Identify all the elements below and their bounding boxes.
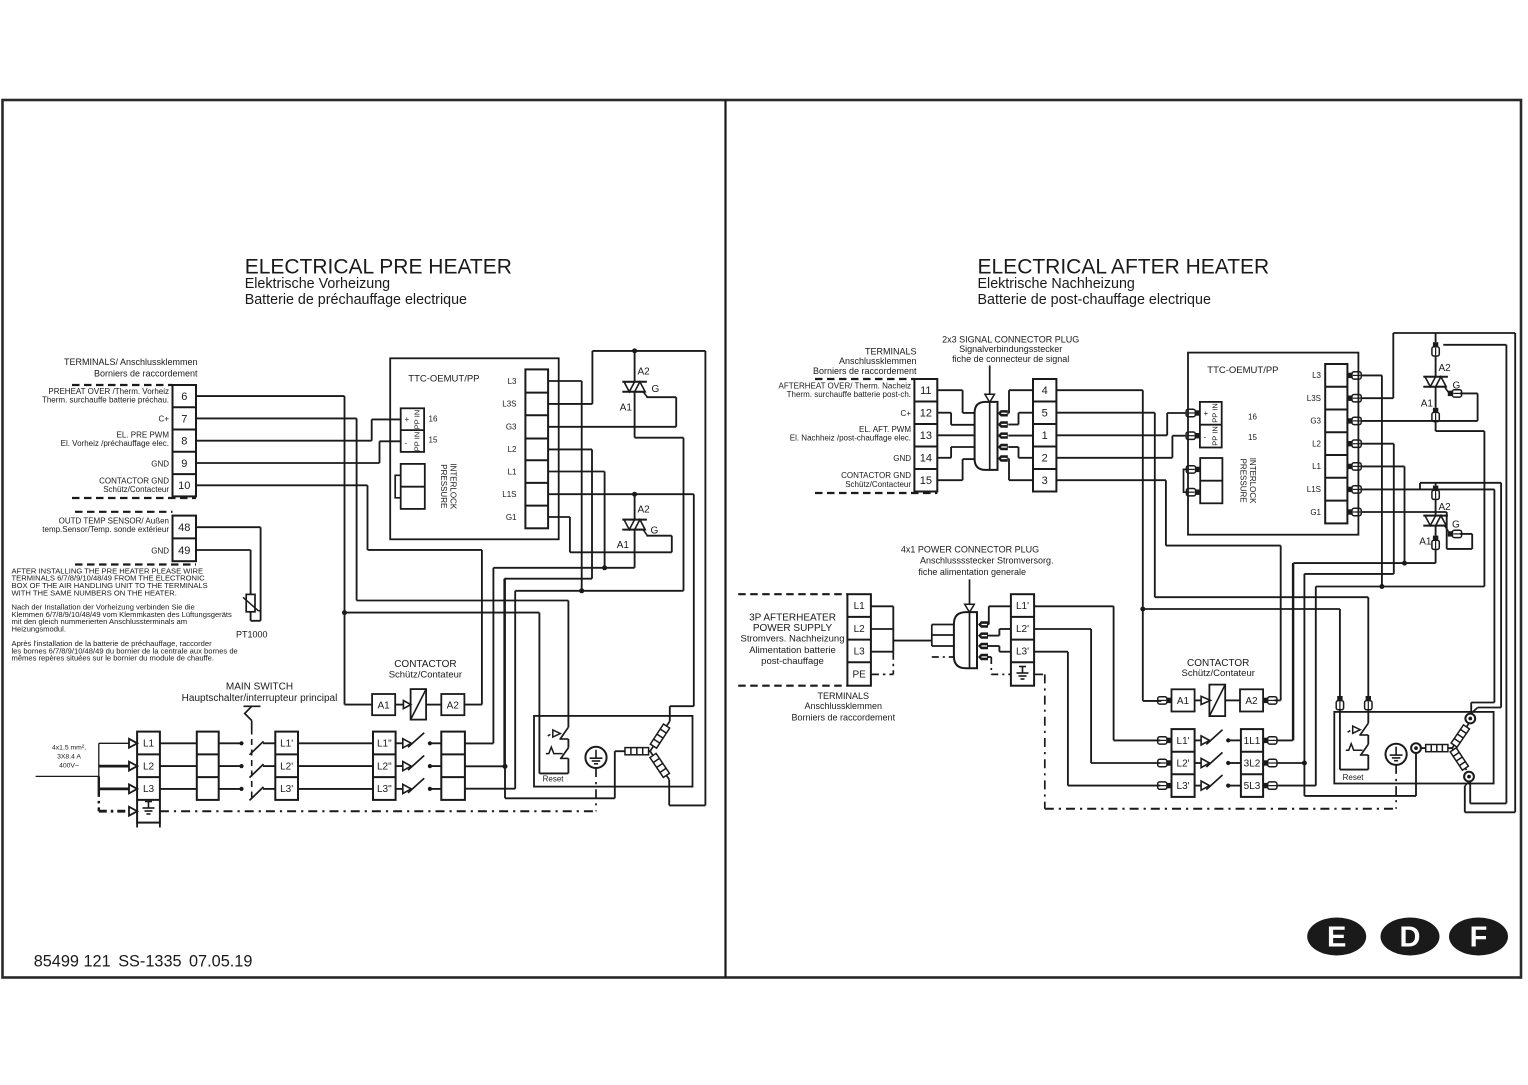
pressure interlock jumper bracket [395,475,401,498]
wire [1367,709,1369,723]
wire [263,765,275,767]
plug PP IN- [1186,432,1200,439]
thermal trip symbol arrow right [1353,726,1361,733]
svg-text:L1S: L1S [1307,485,1321,494]
svg-text:A1: A1 [1177,696,1190,707]
thermal overload symbol [546,747,563,754]
thermal switch blade 2 [561,748,569,759]
node triac Q1 A2 [632,348,637,353]
wire [1228,739,1241,741]
wire L1 [548,471,605,473]
heater resistor R6 [1450,748,1468,770]
wire [567,739,569,748]
wire [1471,534,1473,549]
svg-text:L1: L1 [143,739,155,750]
heater resistor R1 [625,748,649,755]
wire [1381,375,1383,586]
svg-text:15: 15 [429,436,438,445]
svg-text:400V~: 400V~ [59,763,79,770]
svg-text:INTERLOCK: INTERLOCK [449,463,458,509]
svg-text:A2: A2 [638,367,651,378]
wire terminal 8 PWM [196,440,372,442]
wire [1367,597,1369,696]
wire pin 3 [1008,435,1033,437]
svg-text:3X8.4 A: 3X8.4 A [57,754,81,761]
wire [1483,431,1485,586]
socket L1 phase [1465,714,1475,724]
thermal switch blade 2 [1361,744,1369,755]
svg-text:post-chauffage: post-chauffage [761,656,824,667]
wire L2 [1361,443,1393,445]
svg-text:5: 5 [1042,408,1048,420]
plug [1347,508,1361,515]
wire terminal 3 [1056,479,1166,481]
node 3L2 junction [1302,761,1307,766]
wire to PP IN+ [1167,412,1185,414]
heater element Y upper right [1452,724,1468,748]
contactor coil K2 [1209,685,1225,717]
wire G1 gate [548,516,570,518]
power connector fork [931,625,933,647]
wire triac Q3 A1 lead [1435,387,1437,408]
svg-text:Therm. surchauffe batterie pos: Therm. surchauffe batterie post-ch. [787,390,911,399]
wire [396,788,403,790]
svg-text:15: 15 [920,475,932,487]
switch blade [250,741,264,755]
wire [263,742,275,744]
wire terminal 49 [196,549,251,551]
wire PE dashdot [1395,765,1397,809]
wire [1392,333,1394,398]
wire L1S [1361,488,1494,490]
wire [1292,563,1294,740]
wire [1465,811,1515,813]
wire triac Q4 A2 lead [1435,483,1437,486]
panel divider [724,100,726,978]
wire terminal 5 C+ [1056,412,1154,414]
svg-text:Schütz/Contateur: Schütz/Contateur [389,670,462,681]
svg-text:+: + [1204,409,1209,418]
svg-text:85499 121: 85499 121 [34,952,111,970]
plug Q3 G [1448,390,1462,397]
connector pin [998,455,1008,461]
svg-text:12: 12 [920,408,932,420]
wire [1009,389,1033,391]
wire [1367,755,1369,770]
wire [1447,548,1473,550]
svg-text:Reset: Reset [1343,773,1365,782]
wire cutout return [539,772,568,774]
wire G3 gate [1361,420,1477,422]
svg-text:fiche alimentation generale: fiche alimentation generale [918,567,1026,577]
svg-text:15: 15 [1248,433,1257,442]
wire terminal 10 [196,484,368,486]
wire [1448,747,1452,749]
wire L3S top bus [592,350,705,352]
wire triac Q2 A2 lead [634,494,636,519]
plug Q4 G [1448,530,1462,537]
wire to contactor A2 [368,549,482,551]
wire pin 2 [1008,424,1018,426]
svg-text:Anschlusssstecker Stromversorg: Anschlusssstecker Stromversorg. [920,556,1054,566]
wire PE stub [932,656,954,658]
wire L1' [1034,605,1114,607]
heater element Y upper [650,721,670,751]
contact arrow [1201,781,1209,790]
heater element Y lower [650,751,669,779]
wire L3S [1361,397,1393,399]
wire [1404,466,1406,563]
wire [1478,707,1501,709]
wire riser to heater socket 2 [1500,483,1502,708]
wire [430,788,441,790]
wire L3 feed [99,788,129,791]
wire terminal 6 [196,395,345,397]
wire [395,704,403,706]
svg-text:Schütz/Contacteur: Schütz/Contacteur [845,480,911,489]
wire [1018,413,1020,425]
plug [1347,440,1361,447]
svg-text:CONTACTOR: CONTACTOR [394,659,456,670]
svg-text:6: 6 [181,391,187,403]
dashed border power supply block [738,593,847,595]
connector pin [998,444,1008,450]
svg-text:Hauptschalter/interrupteur pri: Hauptschalter/interrupteur principal [182,693,338,704]
wire [538,613,540,774]
wire [344,396,346,612]
wire [160,742,197,744]
svg-text:L2": L2" [377,761,392,772]
plug Q3 A2 [1432,342,1439,356]
node junction T4 [1140,607,1145,612]
connector pin [998,421,1008,427]
thermal switch blade 1 [560,727,568,739]
wire [1091,762,1160,764]
svg-text:L2: L2 [1312,440,1321,449]
plug Q4 A2 [1432,486,1439,500]
svg-text:WITH THE SAME NUMBERS ON THE H: WITH THE SAME NUMBERS ON THE HEATER. [12,589,177,598]
svg-text:C+: C+ [901,409,912,418]
wire [1154,413,1156,598]
wire [646,535,671,537]
svg-text:L1': L1' [280,739,293,750]
wire [1460,533,1472,535]
svg-text:GND: GND [151,460,169,469]
svg-text:1: 1 [1042,430,1048,442]
svg-text:16: 16 [1248,413,1257,422]
contact arrow [403,739,411,748]
triac Q4 [1423,516,1448,526]
wire L3 [1361,374,1382,376]
wire A1 bus right [1293,562,1435,564]
wire [991,673,1011,675]
wire [503,579,505,767]
svg-text:L2: L2 [508,445,517,454]
controller terminal column [525,369,548,528]
wire right riser 2 [1505,345,1507,804]
thermal switch blade 1 [1360,723,1368,735]
wire L3S [548,403,592,405]
svg-text:TTC-OEMUT/PP: TTC-OEMUT/PP [1207,365,1278,376]
svg-text:14: 14 [920,453,932,465]
plug [1347,486,1361,493]
wire [1446,512,1448,549]
contactor coil terminal A2 right [1240,689,1263,711]
plug A1 [1158,697,1172,704]
wire [250,612,252,621]
svg-text:07.05.19: 07.05.19 [189,952,252,970]
wire L2 bus [1304,573,1393,575]
svg-text:L3: L3 [143,784,155,795]
wire triac Q4 A1 lead [1435,526,1437,536]
wire [1019,457,1034,459]
wire [1315,587,1317,786]
wire [1470,703,1472,712]
wire L2 [871,628,893,630]
svg-text:PP IN: PP IN [1211,403,1220,422]
wire [1435,499,1437,516]
svg-text:A2: A2 [447,700,460,711]
wire L3 [548,380,582,382]
heater resistor R3 [650,753,670,777]
svg-text:L3': L3' [280,784,293,795]
plug [1347,372,1361,379]
node contact [428,741,432,745]
wire [251,620,261,622]
wire [1195,762,1202,764]
contactor coil terminal A2 [441,694,464,715]
socket L2 phase [1411,743,1421,753]
contact arrow [1201,736,1209,745]
wire 5L3 [1277,785,1316,787]
svg-text:Reset: Reset [543,774,565,783]
wire triac Q3 A2 lead [1435,333,1437,342]
svg-text:El. Nachheiz /post-chauffage e: El. Nachheiz /post-chauffage elec. [790,434,911,443]
wire riser to heater socket [1493,489,1495,702]
wire L3 bus [515,590,683,592]
svg-text:A1: A1 [1421,399,1434,410]
wire [614,751,616,798]
node switch contact [239,787,243,791]
svg-text:A2: A2 [638,505,651,516]
wire [481,550,483,705]
svg-text:3L2: 3L2 [1244,759,1261,770]
wire [988,606,990,624]
wire terminal 1 PWM [1056,434,1167,436]
wire [567,758,569,773]
svg-text:G3: G3 [1310,417,1321,426]
svg-text:2x3 SIGNAL CONNECTOR PLUG: 2x3 SIGNAL CONNECTOR PLUG [942,335,1079,345]
wire [1195,739,1202,741]
wire pin L2 [988,635,999,637]
wire [1435,549,1437,563]
wire to thermal cutout right [1155,596,1369,598]
wire L2 bus [504,578,592,580]
wire [1113,606,1115,740]
svg-text:GND: GND [151,547,169,556]
contactor coil K1 [411,689,427,720]
wire to thermal cutout left [345,612,540,614]
wire supply feed [36,775,99,777]
wire [1435,421,1437,431]
svg-text:Batterie de préchauffage elect: Batterie de préchauffage electrique [245,292,467,308]
svg-text:L1': L1' [1016,601,1029,612]
wire cutout return [1340,769,1368,771]
input block frame extension [136,823,138,828]
wire [1114,739,1161,741]
wire [367,485,369,550]
wire pin 4 [1008,446,1018,448]
svg-text:1L1: 1L1 [1244,736,1261,747]
svg-text:A1: A1 [617,540,630,551]
wire [932,645,954,647]
wire [1067,652,1069,786]
wire PE dashdot [595,768,597,811]
wire 3L2 [1277,762,1305,764]
wire [514,591,516,789]
wire pin 5 [1007,458,1010,460]
wire [1419,483,1421,490]
wire [1477,393,1479,421]
wire L3' [1034,651,1068,653]
wire [1292,563,1294,740]
wire triac Q1 A1 lead [634,392,636,438]
power connector arrow [969,579,971,604]
connector PP IN block [401,408,424,452]
wire [250,550,252,594]
contactor block L1' L2' L3' right [1172,729,1195,797]
pressure interlock jumper bracket right [1184,469,1187,492]
node contact [1226,784,1230,788]
svg-text:POWER SUPPLY: POWER SUPPLY [753,623,833,634]
wire terminal 9 GND [196,462,380,464]
wire triac Q1 A2 lead [634,351,636,382]
wire [693,494,695,706]
svg-text:A1: A1 [1419,537,1432,548]
wire gate lead Q2 [643,530,647,536]
terminal block 48-49 [173,516,197,562]
wire [160,765,197,767]
svg-text:Alimentation batterie: Alimentation batterie [749,645,836,656]
wire [1469,782,1471,804]
fuse block F2 [441,732,465,800]
wire 1L1 [1277,739,1293,741]
wire [1166,413,1168,435]
svg-text:L3: L3 [508,377,517,386]
wire [1471,708,1478,714]
svg-text:Elektrische Vorheizung: Elektrische Vorheizung [245,276,390,292]
wire terminal 2 GND [1056,457,1172,459]
wire [465,742,494,744]
wire to contactor A2 [1166,545,1281,547]
node L2 heater junction [503,764,508,769]
wire pin L1 [987,624,990,626]
plug cutout right [1365,696,1372,710]
node contact [428,764,432,768]
wire to PP IN- [1172,435,1185,437]
wire [430,742,441,744]
sensor PT1000 [246,594,255,611]
power terminal block L1' L2' L3' PE [1011,594,1034,686]
terminal block 1L1 3L2 5L3 [1241,729,1263,797]
svg-text:-: - [405,439,408,448]
terminal block L1' L2' L3' [275,732,298,800]
wire [98,776,100,789]
wire [989,605,1011,607]
node contact [428,787,432,791]
svg-text:F: F [1470,922,1488,954]
arrow input L3 [129,784,137,793]
wire [999,651,1011,653]
wire [569,517,571,552]
dashed group border terminals 48-49 [75,511,173,513]
thermal trip symbol arrow [553,730,561,737]
svg-text:L2': L2' [1177,759,1190,770]
wire [646,396,676,398]
wire [371,419,373,440]
wire [615,750,625,752]
wire [1421,747,1426,749]
wire L3 [871,651,893,653]
wire [1339,609,1341,696]
power connector plug X2 body [954,612,977,668]
svg-text:G1: G1 [1310,508,1321,517]
wire gate lead Q4 [1445,526,1449,532]
wire terminal 4 [1056,389,1142,391]
wire [1009,479,1033,481]
wire L3S top bus [1393,332,1515,334]
svg-text:PE: PE [852,670,866,681]
wire [932,634,954,636]
svg-text:G: G [652,384,660,395]
wire [464,704,482,706]
svg-text:L2: L2 [143,761,155,772]
node L1 junction [602,565,607,570]
svg-text:L3": L3" [377,784,392,795]
wire A1 bus [493,567,634,569]
svg-text:9: 9 [181,458,187,470]
wire sense bus [1443,344,1506,346]
pressure interlock block [401,464,425,509]
heater enclosure box [534,716,693,787]
wire PE [1044,674,1046,808]
svg-text:E: E [1327,922,1346,954]
wire gate lead Q3 [1445,387,1449,393]
svg-text:11: 11 [920,385,931,397]
wire to heater L2 socket [1304,795,1416,797]
wire [298,742,373,744]
wire [1228,762,1241,764]
wire [1008,459,1010,481]
wire to PP IN- [380,440,401,442]
heater resistor R2 [650,724,669,748]
wire [950,447,952,458]
wire [465,788,515,790]
wire to contactor A1 [1142,609,1144,701]
wire G3 gate [548,426,676,428]
terminal block 6-10 [173,385,197,496]
svg-text:G: G [651,526,659,537]
svg-text:PP IN: PP IN [413,432,422,451]
contactor actuation arrow [403,701,410,709]
connector pin [978,654,988,660]
wire [1339,709,1341,769]
wire [962,459,964,480]
node L3 junction [579,588,584,593]
terminal block 4 5 1 2 3 [1033,379,1056,492]
svg-text:G1: G1 [506,513,517,522]
wire terminal 7 C+ [196,417,357,419]
